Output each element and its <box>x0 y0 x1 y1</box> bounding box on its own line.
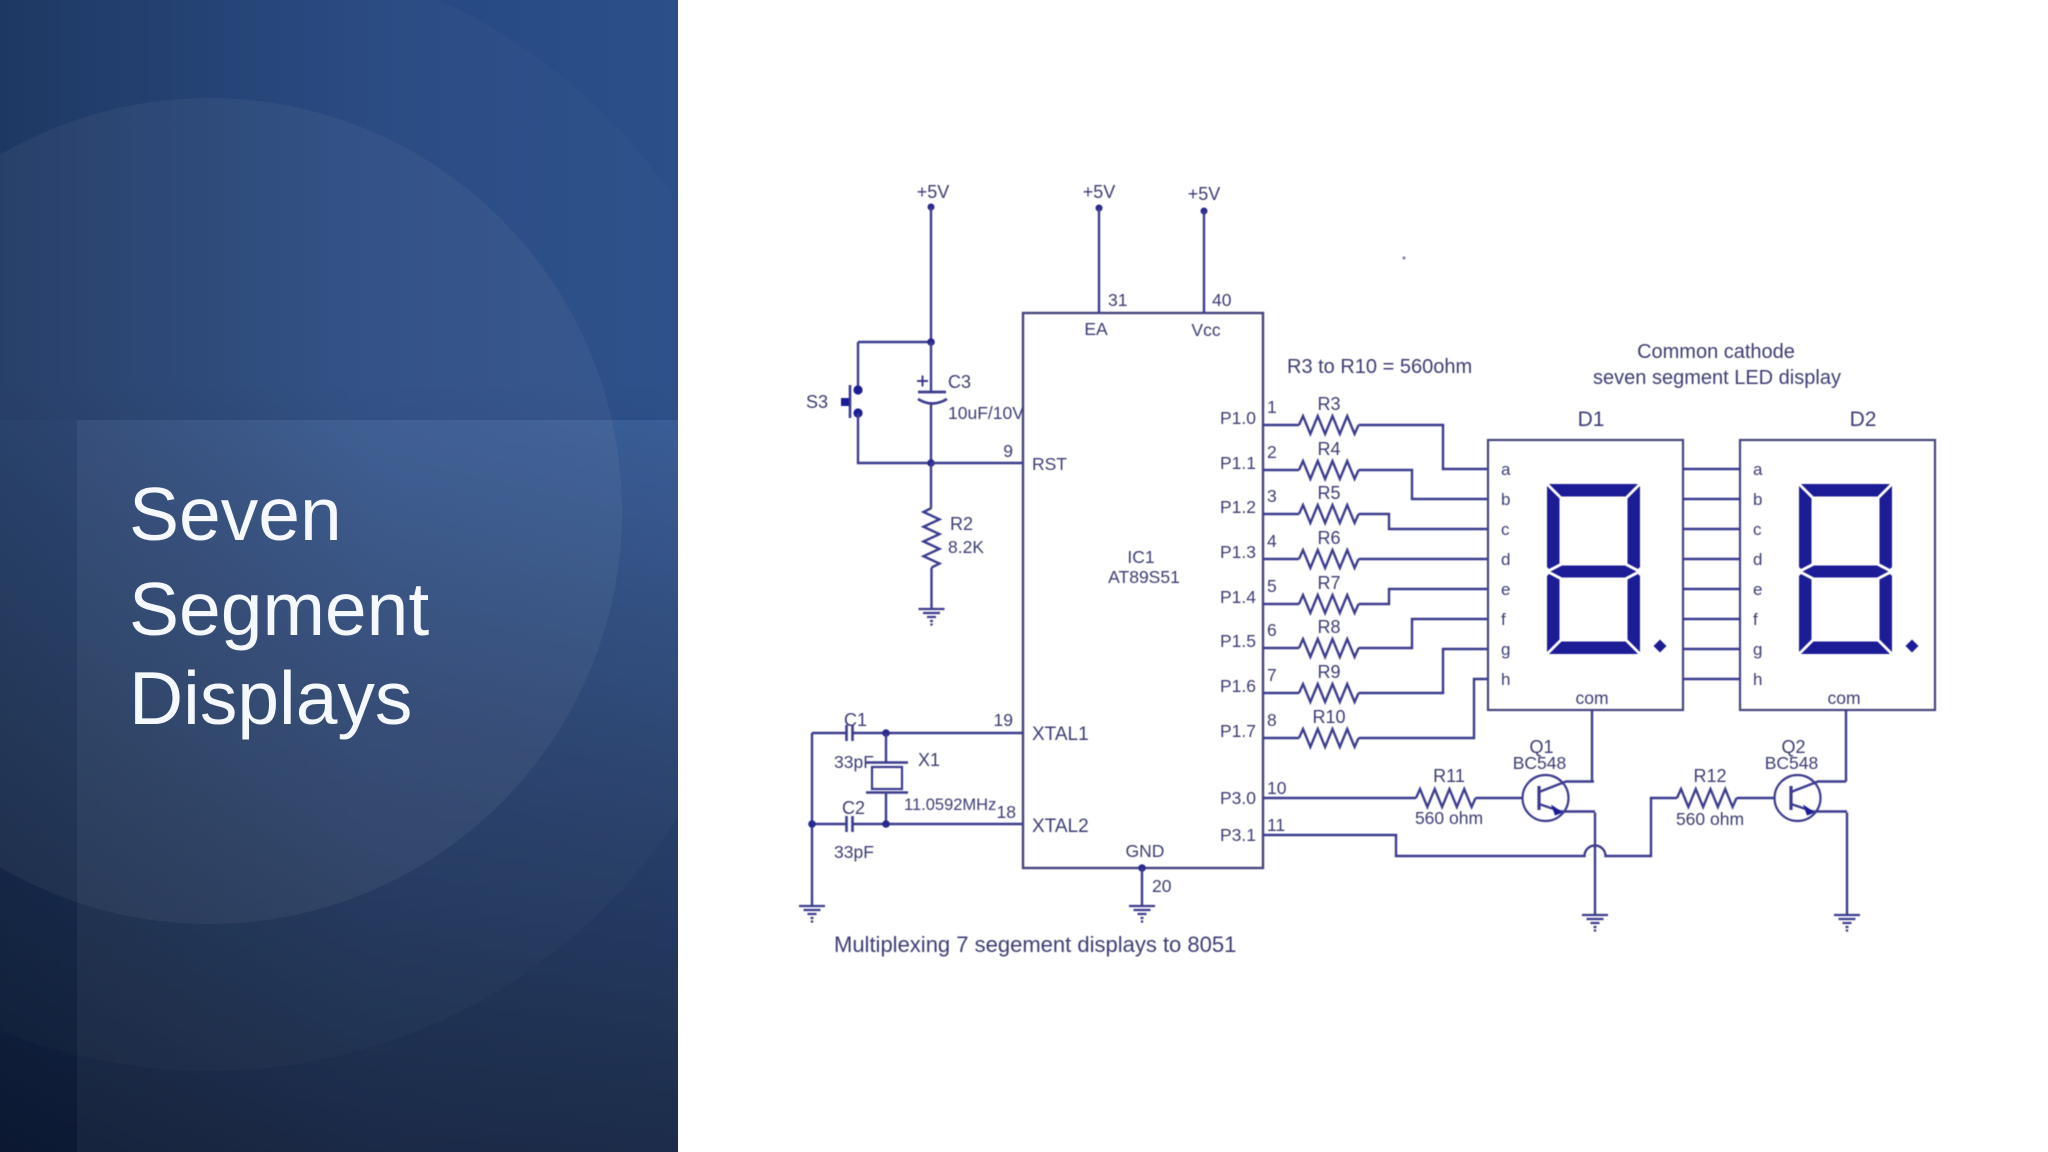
svg-text:g: g <box>1753 640 1762 659</box>
resistor R5 <box>1299 505 1359 523</box>
plus sign of C3 <box>917 376 928 387</box>
ground below crystal rail <box>799 906 825 918</box>
svg-text:P3.1: P3.1 <box>1220 825 1256 845</box>
wire left rail of crystal circuit <box>811 733 813 906</box>
node junction +5V/C3/S3 <box>927 338 935 346</box>
wire below S3 <box>858 413 931 463</box>
svg-text:c: c <box>1501 520 1510 539</box>
svg-text:19: 19 <box>994 710 1013 730</box>
svg-text:31: 31 <box>1108 290 1127 310</box>
svg-text:40: 40 <box>1212 290 1232 310</box>
wire D2 com to Q2 collector <box>1845 710 1847 782</box>
svg-text:Common cathode: Common cathode <box>1637 341 1795 363</box>
svg-text:18: 18 <box>997 802 1016 822</box>
svg-text:h: h <box>1753 670 1762 689</box>
crystal X1 11.0592MHz <box>885 733 887 764</box>
resistor R3 <box>1299 416 1359 434</box>
wire R3 to display segment a <box>1359 425 1488 469</box>
wire Q1 emitter to ground <box>1594 813 1596 915</box>
svg-text:BC548: BC548 <box>1513 753 1567 773</box>
resistor R9 <box>1299 684 1359 702</box>
wire R6 to display segment d <box>1359 558 1488 560</box>
svg-text:9: 9 <box>1003 441 1013 461</box>
wire C3 to RST node <box>930 403 932 463</box>
capacitor C3 polarized 10uF/10V <box>930 342 932 392</box>
svg-text:P1.1: P1.1 <box>1220 453 1256 473</box>
wire R12 to Q2 base <box>1737 797 1775 799</box>
resistor R4 <box>1299 461 1359 479</box>
svg-text:d: d <box>1501 550 1510 569</box>
svg-text:+5V: +5V <box>917 182 950 202</box>
ground below R2 <box>919 609 945 621</box>
svg-text:P1.5: P1.5 <box>1220 631 1256 651</box>
resistor R2 8.2K <box>930 463 932 508</box>
wire C1 to XTAL1 pin 19 <box>853 732 1024 734</box>
svg-text:e: e <box>1753 580 1762 599</box>
svg-text:P1.6: P1.6 <box>1220 676 1256 696</box>
svg-text:P3.0: P3.0 <box>1220 788 1256 808</box>
wire R10 to display segment h <box>1359 679 1488 738</box>
display D1 digit 8 <box>1547 484 1640 654</box>
svg-text:GND: GND <box>1126 841 1165 861</box>
display D2 digit 8 <box>1799 484 1892 654</box>
IC IC1 AT89S51 microcontroller body <box>1023 313 1263 868</box>
svg-text:AT89S51: AT89S51 <box>1108 567 1180 587</box>
left slide panel background <box>0 0 678 1152</box>
display D2 decimal point <box>1906 640 1919 653</box>
svg-text:R8: R8 <box>1317 617 1340 637</box>
svg-text:11.0592MHz: 11.0592MHz <box>904 796 996 814</box>
wire S3 branch down <box>857 342 859 390</box>
svg-text:P1.2: P1.2 <box>1220 497 1256 517</box>
node RST junction <box>927 459 935 467</box>
svg-text:b: b <box>1753 490 1762 509</box>
svg-text:R4: R4 <box>1317 439 1340 459</box>
svg-text:2: 2 <box>1267 442 1277 462</box>
svg-text:IC1: IC1 <box>1127 547 1154 567</box>
svg-text:10: 10 <box>1267 778 1287 798</box>
svg-text:560 ohm: 560 ohm <box>1676 809 1744 829</box>
wire R9 to display segment g <box>1359 649 1488 693</box>
display D2 box <box>1740 440 1935 710</box>
background ring lower-left <box>0 0 769 1071</box>
svg-text:XTAL1: XTAL1 <box>1032 724 1089 745</box>
svg-text:+5V: +5V <box>1188 184 1221 204</box>
svg-text:4: 4 <box>1267 531 1277 551</box>
wire R8 to display segment f <box>1359 619 1488 648</box>
svg-text:20: 20 <box>1152 876 1172 896</box>
svg-text:b: b <box>1501 490 1510 509</box>
svg-text:R9: R9 <box>1317 662 1340 682</box>
svg-text:RST: RST <box>1032 454 1067 474</box>
svg-text:6: 6 <box>1267 620 1277 640</box>
wire R4 to display segment b <box>1359 470 1488 499</box>
svg-text:com: com <box>1575 688 1608 708</box>
svg-text:D1: D1 <box>1578 408 1605 431</box>
svg-text:h: h <box>1501 670 1510 689</box>
wires display D1 to D2 segment rows <box>1683 468 1740 470</box>
svg-text:P1.3: P1.3 <box>1220 542 1256 562</box>
svg-text:seven segment LED display: seven segment LED display <box>1593 367 1841 389</box>
svg-text:f: f <box>1501 610 1506 629</box>
svg-text:P1.0: P1.0 <box>1220 408 1256 428</box>
svg-text:XTAL2: XTAL2 <box>1032 816 1089 837</box>
ground below Q1 <box>1582 915 1608 927</box>
wire R7 to display segment e <box>1359 589 1488 604</box>
resistor R8 <box>1299 639 1359 657</box>
svg-text:d: d <box>1753 550 1762 569</box>
svg-text:7: 7 <box>1267 665 1277 685</box>
svg-text:11: 11 <box>1267 815 1285 835</box>
svg-text:S3: S3 <box>806 392 828 412</box>
wire C2 to XTAL2 pin 18 <box>853 823 1024 825</box>
svg-text:+5V: +5V <box>1083 182 1116 202</box>
wire Q2 emitter to ground <box>1846 813 1848 915</box>
wire R11 to Q1 base <box>1476 797 1523 799</box>
slide title <box>129 477 342 552</box>
svg-text:33pF: 33pF <box>834 842 874 862</box>
display D1 decimal point <box>1654 640 1667 653</box>
svg-text:Multiplexing 7 segement displa: Multiplexing 7 segement displays to 8051 <box>834 932 1236 957</box>
background circle lower-left <box>0 98 622 924</box>
svg-text:R6: R6 <box>1317 528 1340 548</box>
wire R5 to display segment c <box>1359 514 1488 529</box>
svg-text:BC548: BC548 <box>1765 753 1819 773</box>
svg-text:R7: R7 <box>1317 573 1340 593</box>
svg-text:c: c <box>1753 520 1762 539</box>
svg-text:1: 1 <box>1267 397 1277 417</box>
svg-text:X1: X1 <box>918 750 940 770</box>
svg-text:Vcc: Vcc <box>1191 320 1220 340</box>
svg-text:C3: C3 <box>948 372 971 392</box>
svg-text:R3: R3 <box>1317 394 1340 414</box>
resistor R6 <box>1299 550 1359 568</box>
svg-text:P1.4: P1.4 <box>1220 587 1256 607</box>
svg-text:g: g <box>1501 640 1510 659</box>
darker top band <box>0 0 678 420</box>
svg-text:EA: EA <box>1084 319 1108 339</box>
resistor R11 560 ohm <box>1416 789 1476 807</box>
svg-text:R2: R2 <box>950 514 973 534</box>
svg-text:e: e <box>1501 580 1510 599</box>
svg-text:8.2K: 8.2K <box>948 537 984 557</box>
svg-text:D2: D2 <box>1850 408 1877 431</box>
lighter content rectangle <box>77 420 678 1152</box>
svg-text:560 ohm: 560 ohm <box>1415 808 1483 828</box>
darker left strip <box>0 420 77 1152</box>
display D1 box <box>1488 440 1683 710</box>
svg-text:3: 3 <box>1267 486 1277 506</box>
wire R2 to ground <box>930 568 932 609</box>
svg-text:com: com <box>1827 688 1860 708</box>
stray dot artifact <box>1402 256 1405 259</box>
svg-text:R11: R11 <box>1433 766 1465 786</box>
wire D1 com to Q1 collector <box>1591 710 1593 782</box>
svg-text:R5: R5 <box>1317 483 1340 503</box>
svg-text:R10: R10 <box>1312 707 1345 727</box>
transistor Q2 BC548 <box>1775 775 1821 821</box>
svg-text:R12: R12 <box>1693 766 1726 786</box>
svg-text:a: a <box>1501 460 1511 479</box>
svg-text:10uF/10V: 10uF/10V <box>948 403 1024 423</box>
resistor R10 <box>1299 729 1359 747</box>
transistor Q1 BC548 <box>1523 775 1569 821</box>
ground below GND pin <box>1129 906 1155 918</box>
resistor R12 560 ohm <box>1677 789 1737 807</box>
svg-text:P1.7: P1.7 <box>1220 721 1256 741</box>
svg-text:a: a <box>1753 460 1763 479</box>
svg-text:C2: C2 <box>842 798 865 818</box>
svg-text:f: f <box>1753 610 1758 629</box>
wire RST node to pin 9 <box>931 462 1023 464</box>
ground below Q2 <box>1834 915 1860 927</box>
wire top rail of reset circuit <box>858 341 931 343</box>
svg-text:R3 to R10 = 560ohm: R3 to R10 = 560ohm <box>1287 356 1472 378</box>
svg-text:8: 8 <box>1267 710 1277 730</box>
resistor R7 <box>1299 595 1359 613</box>
svg-text:5: 5 <box>1267 576 1277 596</box>
switch S3 push button <box>853 385 862 394</box>
